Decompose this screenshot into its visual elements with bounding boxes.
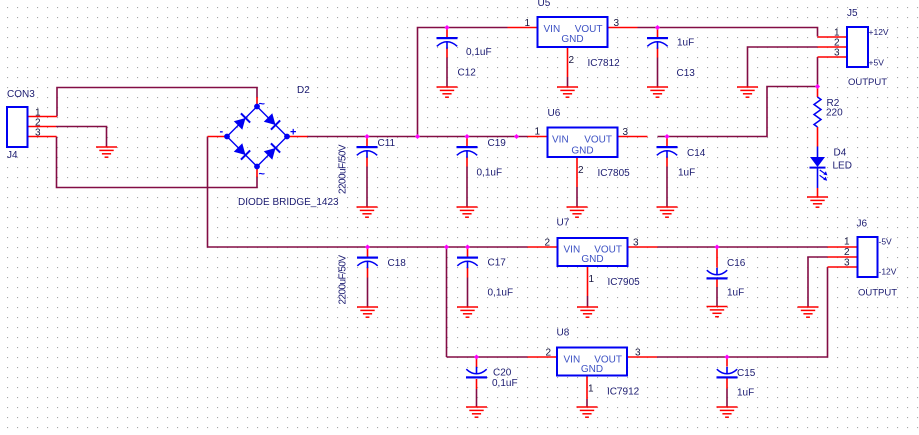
svg-text:2200uF/50V: 2200uF/50V [338, 144, 349, 194]
LED light arrow 2 [820, 175, 826, 179]
regulator U5 body [538, 17, 608, 47]
pin U6-1 [528, 136, 548, 138]
node C20/row4 [474, 354, 479, 359]
pin C12 bottom [446, 48, 448, 58]
svg-text:U7: U7 [557, 218, 570, 229]
svg-text:C17: C17 [488, 258, 507, 269]
node C17/row3 [465, 244, 470, 249]
svg-text:D4: D4 [834, 148, 847, 159]
ground C12 [437, 87, 458, 97]
svg-text:1uF: 1uF [737, 388, 754, 399]
LED triangle [810, 157, 825, 167]
node top-riser/mid rail [415, 134, 420, 139]
bridge node bottom [254, 164, 260, 170]
ground C16 [707, 307, 728, 317]
pin C19 top [466, 137, 468, 147]
svg-text:2200uF/50V: 2200uF/50V [338, 255, 349, 305]
pin bridge left [208, 136, 228, 138]
pin C15 bottom [726, 379, 728, 389]
ground U5 [557, 87, 578, 97]
pin R2 top [817, 87, 819, 98]
pin J4-3 [28, 136, 57, 138]
svg-text:U8: U8 [557, 328, 570, 339]
regulator box pin names [544, 24, 623, 375]
bridge polarity marks [220, 99, 297, 181]
wire C20 lower stem [476, 389, 478, 407]
svg-text:3: 3 [35, 128, 41, 139]
bridge node left [224, 134, 230, 140]
svg-text:0,1uF: 0,1uF [492, 378, 518, 389]
wire C12 lower stem [446, 58, 448, 87]
wire middle rail up to top rail [418, 28, 508, 137]
pin C16 bottom [716, 279, 718, 288]
pin J4-2 [28, 126, 57, 128]
svg-text:0,1uF: 0,1uF [477, 168, 503, 179]
node C15/row4 [724, 354, 729, 359]
svg-text:VIN: VIN [552, 135, 569, 146]
capacitor C19 [457, 146, 478, 158]
wire C13 lower stem [657, 58, 659, 87]
wire U8 output to J6 pin3 [657, 267, 828, 357]
wire C15 lower stem [726, 389, 728, 407]
ground C13 [647, 87, 668, 97]
svg-text:3: 3 [844, 258, 850, 269]
node U6 pin wire end [514, 134, 519, 139]
svg-text:C19: C19 [488, 138, 507, 149]
svg-text:J4: J4 [7, 150, 18, 161]
ground C20 [466, 407, 487, 417]
wire C11 lower stem [366, 167, 368, 207]
pin C17 bottom [467, 267, 469, 278]
LED cathode stem [817, 169, 819, 189]
svg-text:GND: GND [581, 254, 603, 265]
pin J5-3 [818, 56, 848, 58]
capacitor C12 [437, 37, 458, 49]
svg-text:VOUT: VOUT [584, 135, 612, 146]
wire row3 U7 output to J6 pin1 [658, 246, 828, 248]
svg-text:-12V: -12V [879, 267, 897, 277]
node C13/top rail [655, 25, 660, 30]
pin C20 top [476, 357, 478, 367]
pin C13 top [657, 28, 659, 38]
regulator U6 body [548, 128, 618, 158]
bridge node right [284, 134, 290, 140]
svg-text:VIN: VIN [564, 355, 581, 366]
svg-text:3: 3 [633, 238, 639, 249]
svg-text:C11: C11 [378, 138, 396, 149]
capacitor C14 [657, 146, 678, 158]
svg-text:IC7812: IC7812 [588, 58, 621, 69]
pin J6-1 [828, 246, 858, 248]
pin U7-1 [587, 266, 589, 296]
capacitor C17 [457, 257, 478, 269]
ground C17 [457, 307, 478, 317]
svg-text:1: 1 [525, 18, 531, 29]
wire row4 to U8 input [447, 356, 528, 358]
node C18/row3 [365, 244, 370, 249]
wire J5 pin3 down to +5V node [817, 57, 819, 87]
svg-text:C16: C16 [727, 258, 746, 269]
svg-text:3: 3 [614, 18, 620, 29]
wire C16 lower stem [716, 287, 718, 306]
node C16/row3 [714, 244, 719, 249]
connector J4 body [7, 107, 28, 147]
svg-text:1uF: 1uF [678, 168, 695, 179]
wire J4 pin2 to ground [56, 127, 107, 147]
svg-text:GND: GND [571, 145, 593, 156]
node C12/top rail [444, 25, 449, 30]
pin C19 bottom [466, 157, 468, 167]
capacitor C18 [357, 257, 378, 269]
capacitor C20 (inverted) [466, 367, 487, 379]
wire U6 output to +5V node [658, 87, 818, 137]
wire bridge plus to U6 input (middle rail) [307, 136, 528, 138]
svg-text:~: ~ [259, 169, 266, 181]
wire U5 gnd stem [567, 77, 569, 87]
pin U8-1 [586, 376, 588, 400]
capacitor C11 [357, 146, 378, 158]
pin C13 bottom [657, 48, 659, 58]
pin J4-1 [28, 116, 58, 118]
svg-text:~: ~ [259, 99, 266, 111]
capacitor C13 [647, 37, 668, 49]
svg-text:CON3: CON3 [7, 89, 35, 100]
svg-text:3: 3 [623, 127, 629, 138]
svg-text:+5V: +5V [869, 58, 885, 68]
svg-text:-5V: -5V [879, 237, 893, 247]
node C14/+5V rail [664, 134, 669, 139]
ground U8 [577, 407, 598, 417]
bridge edges [227, 107, 287, 167]
wire C19 lower stem [466, 167, 468, 207]
pin bridge bottom [256, 167, 258, 178]
svg-text:+: + [290, 127, 296, 139]
pin U8-2 [528, 356, 558, 358]
pin C20 bottom [476, 379, 478, 389]
svg-text:VIN: VIN [564, 245, 581, 256]
pin bridge right [287, 136, 308, 138]
diode D2d lower-right [263, 143, 280, 160]
svg-text:2: 2 [545, 238, 551, 249]
svg-text:2: 2 [844, 247, 850, 258]
svg-text:U6: U6 [548, 108, 561, 119]
wire row3 down to row4 [446, 247, 448, 357]
pin U7-3 [628, 246, 658, 248]
connector J6 body [858, 237, 878, 277]
svg-text:D2: D2 [297, 85, 310, 96]
svg-text:U5: U5 [538, 0, 551, 9]
ground C18 [357, 307, 378, 317]
svg-text:C20: C20 [493, 368, 512, 379]
pin C16 top [716, 247, 718, 268]
pin C12 top [446, 28, 448, 38]
pin J5-1 [818, 36, 848, 38]
ground C11 [357, 207, 378, 217]
ground U7 [577, 307, 598, 317]
pin LED bottom [817, 188, 819, 197]
svg-text:1uF: 1uF [727, 288, 744, 299]
svg-text:+12V: +12V [869, 27, 889, 37]
svg-text:C13: C13 [677, 68, 696, 79]
svg-text:IC7912: IC7912 [607, 387, 640, 398]
pin C14 top [666, 137, 668, 147]
diode D2a upper-left [233, 113, 250, 130]
svg-text:1uF: 1uF [677, 38, 694, 49]
svg-text:1: 1 [844, 237, 850, 248]
pin U7-2 [528, 246, 558, 248]
pin J6-2 [828, 256, 858, 258]
svg-text:LED: LED [833, 161, 852, 172]
wire bridge minus to row3 rail [208, 137, 528, 248]
svg-text:J6: J6 [857, 219, 868, 230]
pin J6-3 [828, 266, 858, 268]
svg-text:IC7905: IC7905 [608, 277, 641, 288]
svg-text:2: 2 [569, 55, 575, 66]
LED anode stem [817, 147, 819, 158]
ground C19 [457, 207, 478, 217]
pin U6-3 [618, 136, 648, 138]
ground J6 pin2 [798, 307, 819, 317]
pin C11 bottom [366, 157, 368, 167]
wire J6 pin2 to ground [808, 257, 828, 307]
diode D2c lower-left [233, 143, 250, 160]
pin C18 top [367, 247, 369, 257]
svg-text:GND: GND [561, 34, 583, 45]
wire U8 gnd stem [586, 399, 588, 407]
node C19/mid rail [464, 134, 469, 139]
pin U5-2 [567, 47, 569, 77]
regulator U8 body [557, 348, 627, 376]
connector voltage marks [869, 27, 897, 277]
wire C14 lower stem [666, 167, 668, 207]
pin U5-3 [608, 27, 638, 29]
capacitor C15 (inverted) [717, 367, 738, 379]
node row4-riser/row3 [444, 244, 449, 249]
diode D2b upper-right [263, 113, 280, 130]
svg-text:-: - [220, 126, 224, 138]
wire U6 gnd stem [576, 187, 578, 207]
svg-text:3: 3 [635, 348, 641, 359]
svg-text:1: 1 [589, 274, 595, 285]
svg-text:DIODE BRIDGE_1423: DIODE BRIDGE_1423 [238, 197, 339, 208]
pin C11 top [366, 137, 368, 147]
ground C15 [717, 407, 738, 417]
pin C14 bottom [666, 157, 668, 167]
svg-text:C12: C12 [458, 68, 477, 79]
ground LED D4 [807, 197, 828, 207]
svg-text:J5: J5 [847, 8, 858, 19]
ground C14 [657, 207, 678, 217]
svg-text:VIN: VIN [544, 24, 561, 35]
svg-text:0,1uF: 0,1uF [466, 47, 492, 58]
pin bridge top [256, 97, 258, 107]
wire J5 pin2 to ground [748, 47, 818, 87]
pin U8-3 [627, 356, 657, 358]
svg-text:IC7805: IC7805 [598, 168, 631, 179]
ground U6 [567, 207, 588, 217]
svg-text:C18: C18 [388, 258, 407, 269]
pin J5-2 [818, 46, 848, 48]
LED light arrow 1 [820, 170, 826, 174]
svg-text:0,1uF: 0,1uF [488, 288, 514, 299]
pin R2 bottom [817, 127, 819, 147]
wire U7 gnd stem [587, 296, 589, 307]
svg-text:3: 3 [834, 48, 840, 59]
wire J4 pin3 to bridge AC bottom [57, 137, 258, 188]
svg-text:220: 220 [826, 108, 843, 119]
svg-text:C14: C14 [687, 148, 706, 159]
pin U6-2 [576, 157, 578, 187]
pin C18 bottom [367, 267, 369, 278]
capacitor C16 (inverted) [707, 268, 728, 280]
svg-text:2: 2 [578, 165, 584, 176]
pin C15 top [726, 357, 728, 367]
svg-text:GND: GND [581, 364, 603, 375]
ground J4 pin2 [96, 147, 117, 157]
connector J5 body [847, 27, 868, 67]
wire C18 lower stem [367, 278, 369, 307]
regulator U7 body [558, 238, 628, 266]
svg-text:C15: C15 [737, 368, 756, 379]
LED cathode bar [810, 167, 826, 169]
pin U5-1 [508, 27, 538, 29]
svg-text:1: 1 [588, 384, 594, 395]
node +5V / R2 tap [815, 84, 820, 89]
svg-text:OUTPUT: OUTPUT [848, 77, 887, 88]
wire U5 output to J5 pin1 [638, 28, 818, 37]
bridge node top [254, 104, 260, 110]
node C11/mid rail [364, 134, 369, 139]
wire J4 pin1 to bridge AC top [57, 88, 257, 117]
svg-text:2: 2 [546, 348, 552, 359]
svg-text:OUTPUT: OUTPUT [858, 288, 897, 299]
wire C17 lower stem [467, 278, 469, 307]
pin C17 top [467, 247, 469, 257]
svg-text:1: 1 [535, 127, 541, 138]
ground J5 pin2 [737, 87, 758, 97]
